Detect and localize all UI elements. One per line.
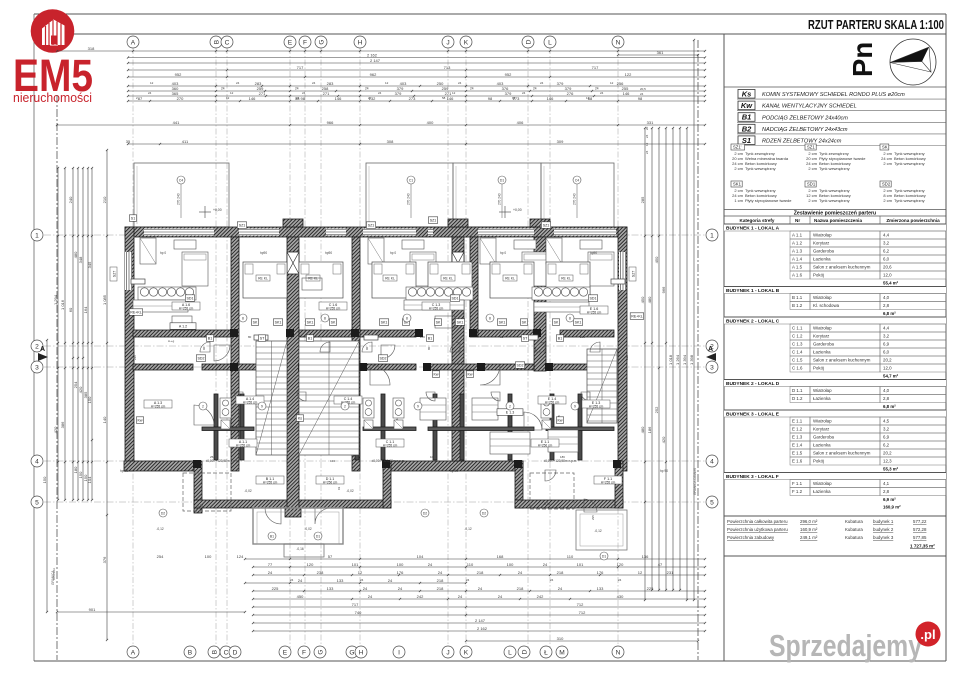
svg-text:SK1: SK1	[499, 320, 506, 324]
svg-text:24: 24	[498, 594, 503, 599]
axis marker top E	[284, 36, 296, 48]
axis marker bottom E	[279, 646, 291, 658]
room label F1.1	[594, 476, 622, 485]
svg-text:3: 3	[35, 364, 39, 371]
wall D-C	[352, 237, 360, 471]
svg-text:SK1: SK1	[381, 320, 388, 324]
bathroom fixtures at 393	[393, 398, 404, 429]
svg-text:24: 24	[365, 87, 369, 91]
bottom dim row 2b	[244, 578, 467, 584]
svg-text:SZ1: SZ1	[239, 223, 246, 227]
svg-text:A: A	[708, 346, 713, 353]
right dim x673	[668, 127, 674, 591]
svg-text:D1: D1	[602, 554, 606, 558]
svg-text:90: 90	[365, 346, 369, 350]
svg-text:-0,12: -0,12	[543, 502, 550, 506]
svg-text:176: 176	[397, 570, 404, 575]
svg-text:120: 120	[307, 562, 314, 567]
legend row S1	[737, 136, 946, 146]
svg-text:379: 379	[505, 91, 512, 96]
svg-text:A 1.4: A 1.4	[792, 257, 803, 262]
svg-text:12,3: 12,3	[883, 459, 892, 464]
svg-text:Wiatrołap: Wiatrołap	[813, 388, 832, 393]
svg-text:C1: C1	[409, 179, 413, 183]
svg-text:411: 411	[182, 139, 189, 144]
room label E1.4	[538, 396, 566, 405]
svg-text:SD2: SD2	[882, 182, 891, 187]
svg-text:H=255 cm: H=255 cm	[263, 481, 278, 485]
window top wall 363-416	[363, 229, 416, 236]
axis line F	[304, 48, 306, 648]
svg-text:PODCIĄG ŻELBETOWY 24x40cm: PODCIĄG ŻELBETOWY 24x40cm	[762, 114, 848, 121]
circled ref D1 at 604,556	[600, 552, 608, 560]
axis marker bottom B	[184, 646, 196, 658]
sofa cushions C	[406, 287, 473, 300]
svg-text:ST: ST	[260, 336, 265, 340]
terrace 1	[134, 163, 229, 227]
radiator label RE KL at 448	[441, 275, 455, 281]
svg-text:GRANICA DZIAŁKI: GRANICA DZIAŁKI	[693, 468, 697, 495]
swing A1.2	[214, 345, 230, 361]
frame left	[33, 14, 35, 661]
terrace 2 inner	[368, 166, 370, 224]
svg-text:4,4: 4,4	[883, 326, 890, 331]
svg-text:C 1.1: C 1.1	[792, 326, 803, 331]
svg-text:H: H	[359, 649, 364, 656]
svg-text:C4: C4	[575, 179, 579, 183]
svg-text:hp 90: hp 90	[120, 469, 128, 473]
level mark +0.00 at 505	[499, 206, 522, 218]
wall label SZ1 rotated at 114	[110, 267, 117, 281]
label B1 at 310,338	[306, 335, 313, 342]
right dim x666	[661, 127, 667, 591]
porch F entry	[576, 510, 627, 550]
label ST at 525,338	[521, 335, 528, 342]
svg-text:480: 480	[647, 296, 652, 303]
label Kw at 560,420	[556, 417, 563, 424]
window left wall	[125, 252, 132, 290]
svg-text:12: 12	[610, 81, 614, 85]
svg-text:SK1: SK1	[575, 320, 582, 324]
table row B 1.1	[790, 294, 946, 302]
svg-text:budynek 2: budynek 2	[873, 527, 894, 532]
table row E 1.6	[790, 457, 946, 465]
svg-text:S27: S27	[113, 271, 117, 277]
right dim x659	[654, 127, 660, 591]
site boundary left	[56, 95, 58, 660]
svg-text:100: 100	[205, 554, 212, 559]
svg-text:270 240: 270 240	[573, 193, 577, 205]
column S1 at 416,330	[415, 329, 423, 337]
terrace mark C4	[177, 176, 186, 218]
svg-text:712: 712	[577, 602, 584, 607]
svg-text:E: E	[288, 39, 293, 46]
column S1 at 534,330	[533, 329, 541, 337]
svg-text:24: 24	[268, 570, 273, 575]
label A 1.2	[170, 323, 196, 330]
svg-text:L: L	[548, 39, 552, 46]
svg-text:1 018: 1 018	[668, 354, 673, 365]
section arrow A left	[38, 346, 48, 361]
svg-text:122: 122	[625, 72, 632, 77]
svg-text:717: 717	[592, 65, 599, 70]
svg-text:186: 186	[647, 426, 652, 433]
svg-text:273: 273	[409, 96, 416, 101]
svg-text:3,2: 3,2	[883, 241, 890, 246]
left dim x73	[68, 167, 74, 501]
axis line 2	[44, 345, 706, 347]
svg-text:RZUT PARTERU SKALA 1:100: RZUT PARTERU SKALA 1:100	[808, 17, 944, 32]
svg-text:E 1.3: E 1.3	[792, 435, 803, 440]
svg-text:Garderoba: Garderoba	[813, 342, 835, 347]
svg-text:577,85: 577,85	[913, 535, 927, 540]
table row C 1.6	[790, 364, 946, 372]
svg-text:218: 218	[437, 586, 444, 591]
wall type SK1	[731, 181, 792, 203]
svg-text:24: 24	[398, 586, 403, 591]
door arc at 590	[581, 392, 590, 401]
svg-text:S1: S1	[742, 136, 751, 145]
svg-text:24: 24	[148, 91, 152, 95]
window top wall 478-534	[478, 229, 534, 236]
radiator at 364,335	[364, 335, 378, 340]
column S1 at 546,364	[545, 363, 553, 371]
axis marker left 4	[31, 455, 43, 467]
svg-text:24: 24	[558, 586, 563, 591]
svg-text:BUDYNEK 1 - LOKAL B: BUDYNEK 1 - LOKAL B	[726, 288, 780, 294]
svg-text:A 1.2: A 1.2	[179, 324, 187, 328]
svg-text:budynek 3: budynek 3	[873, 535, 894, 540]
svg-text:271: 271	[259, 91, 266, 96]
circled ref 2 at 510,406	[506, 402, 514, 410]
svg-text:1 085: 1 085	[102, 294, 107, 305]
svg-text:295: 295	[591, 515, 595, 520]
bathroom fixtures at 363	[363, 398, 374, 429]
svg-text:±0,00=+123,98m n.p.m: ±0,00=+123,98m n.p.m	[372, 459, 405, 463]
svg-text:BUDYNEK 3 - LOKAL E: BUDYNEK 3 - LOKAL E	[726, 411, 780, 417]
svg-text:146: 146	[623, 91, 630, 96]
bottom dim row 5	[252, 602, 706, 608]
top dim 2147	[127, 58, 706, 64]
window right wall	[619, 252, 626, 290]
svg-text:+0,00: +0,00	[213, 208, 222, 212]
svg-text:C: C	[224, 649, 229, 656]
bed outline at 546	[546, 262, 590, 298]
door arc at 243	[234, 392, 243, 401]
svg-text:104: 104	[330, 459, 335, 463]
svg-text:8: 8	[242, 316, 244, 320]
svg-text:160,9 m²: 160,9 m²	[883, 505, 901, 510]
svg-text:9: 9	[574, 404, 576, 408]
axis marker top D	[522, 36, 534, 48]
frame top	[34, 13, 946, 15]
svg-text:210: 210	[102, 196, 107, 203]
bed outline at 243	[243, 262, 287, 298]
axis line C	[226, 48, 228, 648]
radiator at 611,279	[611, 279, 625, 284]
bottom dim row 3	[252, 586, 706, 592]
svg-text:24: 24	[478, 586, 483, 591]
svg-text:F 1.2: F 1.2	[792, 489, 803, 494]
svg-text:12: 12	[385, 81, 389, 85]
svg-text:D: D	[521, 649, 528, 654]
svg-text:SZ1: SZ1	[430, 218, 437, 222]
axis line E	[289, 48, 291, 648]
axis marker top H	[354, 36, 366, 48]
wall partition y425 x363	[363, 427, 416, 431]
svg-text:713: 713	[444, 65, 451, 70]
circled ref 2 at 345,406	[341, 402, 349, 410]
axis marker bottom F	[298, 646, 310, 658]
svg-text:24: 24	[470, 87, 474, 91]
wall partition x240	[240, 394, 244, 460]
svg-text:Korytarz: Korytarz	[813, 241, 829, 246]
svg-text:120: 120	[617, 562, 624, 567]
terrace 4	[541, 163, 614, 227]
axis line N	[617, 48, 619, 648]
svg-text:24: 24	[645, 134, 649, 138]
axis marker bottom Ł	[540, 646, 552, 658]
svg-text:12: 12	[150, 81, 154, 85]
svg-text:Pokój: Pokój	[813, 366, 824, 371]
svg-text:276: 276	[567, 91, 574, 96]
legend row Ks	[737, 90, 946, 100]
label SK at 255,322	[251, 319, 258, 326]
section arrow A right	[706, 346, 716, 361]
room label A1.1	[229, 439, 257, 448]
svg-text:20,2: 20,2	[883, 451, 892, 456]
svg-text:K: K	[464, 39, 469, 46]
wall partition x550	[550, 394, 554, 460]
svg-text:2 162: 2 162	[367, 52, 378, 57]
svg-text:budynek 1: budynek 1	[873, 519, 894, 524]
svg-text:717: 717	[352, 602, 359, 607]
svg-text:Kw: Kw	[468, 372, 473, 376]
wall protrusion at 283	[283, 219, 303, 227]
frame second top	[34, 33, 946, 35]
svg-text:24: 24	[522, 91, 526, 95]
svg-text:400: 400	[427, 120, 434, 125]
svg-text:348: 348	[78, 256, 83, 263]
svg-text:361: 361	[657, 50, 664, 55]
entry door B1	[265, 508, 281, 524]
svg-text:296,0 m²: 296,0 m²	[800, 519, 818, 524]
svg-text:Tynk wewnętrzny: Tynk wewnętrzny	[819, 166, 850, 171]
svg-text:2 cm: 2 cm	[883, 198, 892, 203]
svg-text:2 cm: 2 cm	[883, 161, 892, 166]
wall lower band 5	[546, 364, 614, 370]
label SK at 406,322	[402, 319, 409, 326]
wall mid band 1	[133, 330, 231, 337]
svg-text:H=256 cm: H=256 cm	[538, 444, 553, 448]
svg-text:8: 8	[324, 316, 326, 320]
svg-text:80: 80	[427, 346, 431, 350]
axis marker bottom L	[504, 646, 516, 658]
wall mid band 2	[299, 330, 352, 337]
svg-text:4,5: 4,5	[883, 419, 890, 424]
axis marker bottom D	[518, 646, 530, 658]
label Kw at 470,374	[466, 371, 473, 378]
svg-text:Łazienka: Łazienka	[813, 257, 831, 262]
label SK1 at 578,322	[573, 319, 582, 326]
svg-text:80: 80	[248, 335, 252, 339]
axis marker top G	[315, 36, 327, 48]
svg-text:24: 24	[221, 87, 225, 91]
svg-text:8: 8	[489, 316, 491, 320]
svg-text:2 cm: 2 cm	[808, 198, 817, 203]
left dim x107	[102, 149, 108, 641]
svg-text:140: 140	[102, 416, 107, 423]
table row E 1.5	[790, 449, 946, 457]
legend row Kw	[737, 101, 946, 111]
svg-text:740: 740	[355, 610, 362, 615]
room label D1.1	[316, 476, 344, 485]
left dim x83	[78, 167, 84, 501]
top dim 2162	[127, 52, 706, 58]
bottom dim row 8	[252, 626, 706, 632]
wall right outer	[618, 227, 627, 471]
top dim row f	[126, 139, 706, 145]
svg-text:24: 24	[295, 87, 299, 91]
svg-text:H=255 cm: H=255 cm	[243, 401, 258, 405]
svg-text:E 1.5: E 1.5	[792, 451, 803, 456]
svg-text:24: 24	[533, 87, 537, 91]
sofa cushions A	[138, 287, 196, 300]
table section BUDYNEK 3 - LOKAL E	[724, 410, 946, 417]
wall lower band 2	[202, 364, 287, 370]
bottom dim row 2	[252, 570, 706, 576]
svg-text:A: A	[40, 346, 45, 353]
axis line J	[447, 48, 449, 648]
svg-text:N: N	[616, 649, 621, 656]
svg-text:60: 60	[68, 307, 73, 312]
wall spine foot	[285, 508, 301, 517]
svg-text:D: D	[233, 649, 238, 656]
axis marker top N	[612, 36, 624, 48]
svg-text:D1: D1	[316, 534, 320, 538]
svg-text:6,9 m²: 6,9 m²	[883, 497, 896, 502]
svg-text:55,3 m²: 55,3 m²	[883, 467, 899, 472]
svg-text:B 1.1: B 1.1	[792, 295, 803, 300]
svg-text:Łazienka: Łazienka	[813, 443, 831, 448]
svg-text:J: J	[446, 39, 449, 46]
svg-text:12: 12	[638, 570, 643, 575]
axis marker bottom H	[355, 646, 367, 658]
svg-text:249,1 m²: 249,1 m²	[800, 535, 818, 540]
svg-text:4: 4	[710, 458, 714, 465]
swing A1.1	[194, 405, 214, 425]
radiator label RE KL at 263	[256, 275, 270, 281]
svg-text:D2: D2	[423, 511, 427, 515]
svg-text:480: 480	[640, 426, 645, 433]
svg-text:SK1: SK1	[275, 320, 282, 324]
svg-text:KANAŁ WENTYLACYJNY SCHIEDEL: KANAŁ WENTYLACYJNY SCHIEDEL	[762, 104, 857, 110]
label Kw at 140,420	[136, 417, 143, 424]
column S1 at 352,330	[351, 329, 359, 337]
svg-text:270 240: 270 240	[177, 193, 181, 205]
svg-text:B1: B1	[742, 113, 752, 122]
swing C1.2	[381, 345, 395, 359]
svg-text:B: B	[211, 649, 218, 654]
wall mid band 5	[560, 330, 614, 337]
axis marker top B	[210, 36, 222, 48]
svg-text:SD1: SD1	[187, 296, 194, 300]
frame bottom	[34, 660, 946, 662]
table section BUDYNEK 2 - LOKAL D	[724, 380, 946, 387]
axis marker top K	[460, 36, 472, 48]
svg-text:254: 254	[157, 554, 164, 559]
svg-text:SK: SK	[331, 320, 336, 324]
circled ref 9 at 262,406	[258, 402, 266, 410]
svg-text:1 cm: 1 cm	[734, 198, 743, 203]
bottom dim row 0	[157, 554, 706, 560]
label SK at 438,322	[434, 319, 441, 326]
svg-text:-0,02: -0,02	[244, 489, 251, 493]
wall type SD1	[805, 181, 851, 203]
porch center step	[284, 544, 324, 557]
swing E1.1b	[480, 365, 500, 385]
bathroom fixtures at 220	[220, 398, 231, 429]
column S1 at 299,364	[298, 363, 306, 371]
axis marker bottom I	[393, 646, 405, 658]
svg-text:450: 450	[654, 256, 659, 263]
window top wall 428-433	[428, 229, 433, 236]
svg-text:RDZEŃ ŻELBETOWY 24x24cm: RDZEŃ ŻELBETOWY 24x24cm	[762, 138, 842, 145]
svg-text:240: 240	[68, 196, 73, 203]
svg-text:Korytarz: Korytarz	[813, 427, 829, 432]
wall extension2 right	[615, 461, 623, 508]
stair hatch 299-359	[299, 341, 359, 455]
svg-text:SD2: SD2	[198, 356, 205, 360]
svg-text:24: 24	[428, 562, 433, 567]
svg-text:24: 24	[543, 562, 548, 567]
svg-text:901: 901	[89, 607, 96, 612]
table row C 1.5	[790, 356, 946, 364]
circled ref 8 at 243,318	[239, 314, 247, 322]
svg-text:OPASKA: OPASKA	[52, 568, 56, 580]
svg-text:2,8: 2,8	[883, 303, 890, 308]
svg-text:Ł: Ł	[544, 649, 548, 656]
svg-text:24: 24	[550, 578, 554, 582]
left dim x78	[73, 167, 79, 501]
svg-text:SK: SK	[882, 145, 888, 150]
svg-text:406: 406	[517, 120, 524, 125]
svg-text:C 1.3: C 1.3	[792, 342, 803, 347]
svg-text:24: 24	[378, 91, 382, 95]
axis marker right 1	[706, 229, 718, 241]
svg-text:I: I	[398, 649, 400, 656]
svg-text:Tynk wewnętrzny: Tynk wewnętrzny	[894, 198, 925, 203]
svg-text:D: D	[525, 39, 532, 44]
svg-text:12: 12	[586, 96, 590, 100]
table row F 1.2	[790, 488, 946, 496]
svg-text:Kubatura: Kubatura	[845, 519, 863, 524]
axis marker bottom N	[612, 646, 624, 658]
svg-text:12,0: 12,0	[883, 366, 892, 371]
svg-text:SD2: SD2	[380, 356, 387, 360]
table footer areas	[724, 516, 946, 556]
svg-text:RE KL: RE KL	[505, 277, 515, 281]
svg-text:242: 242	[417, 594, 424, 599]
axis marker right 3	[706, 361, 718, 373]
svg-text:SK: SK	[554, 320, 559, 324]
wall partition x508	[508, 394, 512, 460]
room label E1.3	[582, 400, 610, 409]
svg-text:3: 3	[710, 364, 714, 371]
radiator label RE KL at 566	[559, 275, 573, 281]
svg-text:24: 24	[518, 570, 523, 575]
entry door E1	[545, 470, 556, 481]
